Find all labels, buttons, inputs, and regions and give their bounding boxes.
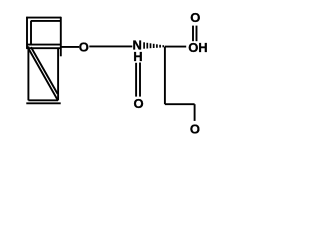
lower ring diagonal outer	[28, 48, 57, 100]
lower ring bottom edge upper	[28, 99, 58, 101]
lower ring bottom edge lower	[26, 102, 60, 104]
svg-text:O: O	[190, 122, 200, 137]
ring top outer edge	[26, 17, 61, 19]
svg-text:H: H	[133, 49, 142, 64]
bond stereocenter down	[164, 47, 166, 105]
svg-text:OH: OH	[188, 40, 208, 55]
ring middle bond upper	[26, 44, 60, 46]
lower ring diagonal inner	[31, 47, 58, 94]
bond ring to ester O	[61, 46, 79, 48]
svg-text:O: O	[133, 96, 143, 111]
carboxyl C=O double bond line left	[192, 26, 194, 42]
carboxyl C=O double bond line right	[196, 26, 198, 42]
svg-text:O: O	[79, 39, 89, 54]
ring left outer vertical	[26, 17, 28, 49]
ring right vertical	[60, 17, 62, 57]
bond O to N	[89, 45, 132, 47]
carbamate C=O double bond line left	[135, 63, 137, 97]
ring left inner vertical	[30, 21, 32, 45]
lower ring left vertical	[27, 46, 29, 100]
ring lower middle bond	[26, 47, 60, 49]
bond chain to hydroxyl O	[194, 104, 196, 121]
bond stereocenter to carboxyl	[165, 46, 186, 48]
lower ring right edge	[57, 48, 59, 100]
bond chain horizontal	[165, 103, 195, 105]
svg-text:O: O	[190, 10, 200, 25]
hashed wedge bond N to stereocenter	[144, 42, 163, 48]
carbamate C=O double bond line right	[139, 63, 141, 97]
ring top inner edge	[31, 20, 61, 22]
